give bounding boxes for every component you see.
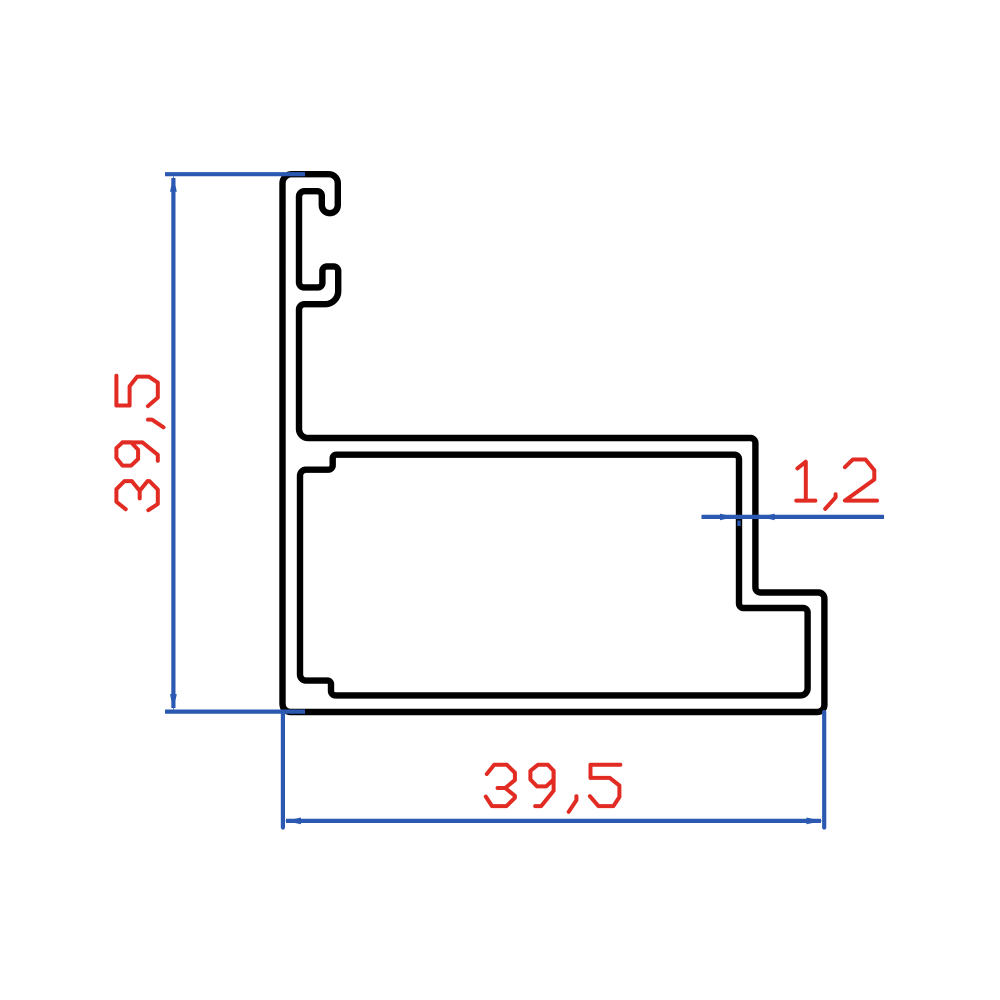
vertical dimension line	[171, 178, 175, 708]
wall thickness arrow pointing left	[760, 514, 775, 521]
dimension text 39,5 bottom	[486, 765, 621, 812]
horizontal dimension line	[286, 819, 821, 823]
dimension text 39,5 vertical left	[116, 376, 163, 511]
horizontal dimension: extension line left	[281, 712, 285, 828]
wall thickness arrow pointing right	[720, 514, 735, 521]
horizontal dimension arrow right	[806, 818, 823, 825]
vertical dimension arrow down	[170, 694, 177, 711]
vertical dimension arrow up	[170, 175, 177, 192]
vertical dimension: extension line top	[165, 172, 305, 176]
vertical dimension: extension line bottom	[165, 709, 305, 713]
small blue tick under wall dimension	[737, 521, 740, 527]
dimension text 1,2	[796, 460, 877, 509]
horizontal dimension: extension line right	[822, 712, 826, 828]
wall thickness dimension left line	[702, 515, 761, 519]
inner hollow cavity contour	[300, 455, 808, 696]
horizontal dimension arrow left	[284, 818, 301, 825]
aluminium profile cross-section outer contour	[283, 174, 825, 712]
wall thickness dimension right line	[757, 515, 884, 519]
